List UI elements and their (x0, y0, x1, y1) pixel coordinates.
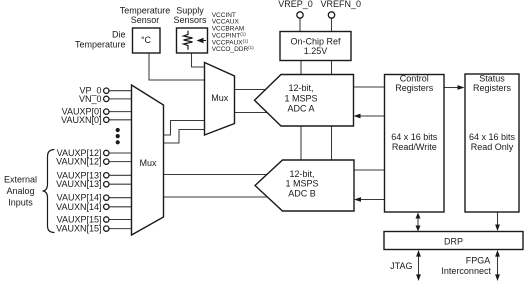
svg-text:VAUXN[12]: VAUXN[12] (56, 157, 101, 167)
svg-text:ADC B: ADC B (288, 188, 316, 198)
svg-text:VN_0: VN_0 (79, 94, 102, 104)
svg-text:Read Only: Read Only (471, 142, 514, 152)
svg-text:Status: Status (479, 74, 505, 84)
svg-text:Control: Control (400, 74, 429, 84)
svg-text:Registers: Registers (395, 83, 434, 93)
svg-text:VCCO_DDR(1): VCCO_DDR(1) (212, 45, 254, 53)
svg-text:External: External (4, 174, 37, 184)
svg-text:Die: Die (112, 30, 126, 40)
svg-text:64 x 16 bits: 64 x 16 bits (469, 132, 516, 142)
svg-text:1.25V: 1.25V (304, 46, 328, 56)
svg-text:1 MSPS: 1 MSPS (284, 93, 317, 103)
svg-text:1 MSPS: 1 MSPS (285, 179, 318, 189)
svg-text:Read/Write: Read/Write (392, 142, 437, 152)
svg-text:Sensors: Sensors (173, 15, 207, 25)
svg-text:VAUXN[15]: VAUXN[15] (56, 224, 101, 234)
svg-text:Analog: Analog (6, 186, 34, 196)
svg-text:DRP: DRP (444, 237, 463, 247)
svg-text:ADC A: ADC A (287, 103, 314, 113)
svg-text:JTAG: JTAG (390, 261, 412, 271)
svg-text:VREP_0: VREP_0 (278, 0, 313, 9)
svg-text:VREFN_0: VREFN_0 (321, 0, 362, 9)
svg-text:Mux: Mux (211, 93, 229, 103)
svg-text:Registers: Registers (473, 83, 512, 93)
svg-text:On-Chip Ref: On-Chip Ref (290, 37, 341, 47)
svg-text:12-bit,: 12-bit, (288, 83, 313, 93)
svg-text:Temperature: Temperature (75, 39, 126, 49)
svg-text:Interconnect: Interconnect (441, 266, 491, 276)
svg-text:°C: °C (141, 35, 152, 45)
svg-text:Mux: Mux (139, 158, 157, 168)
svg-text:FPGA: FPGA (466, 256, 491, 266)
svg-text:Sensor: Sensor (131, 15, 160, 25)
svg-text:64 x 16 bits: 64 x 16 bits (391, 132, 438, 142)
svg-text:VAUXN[14]: VAUXN[14] (56, 202, 101, 212)
svg-text:12-bit,: 12-bit, (289, 169, 314, 179)
svg-text:VAUXN[13]: VAUXN[13] (56, 179, 101, 189)
svg-text:Inputs: Inputs (8, 198, 33, 208)
svg-text:VAUXN[0]: VAUXN[0] (61, 115, 101, 125)
